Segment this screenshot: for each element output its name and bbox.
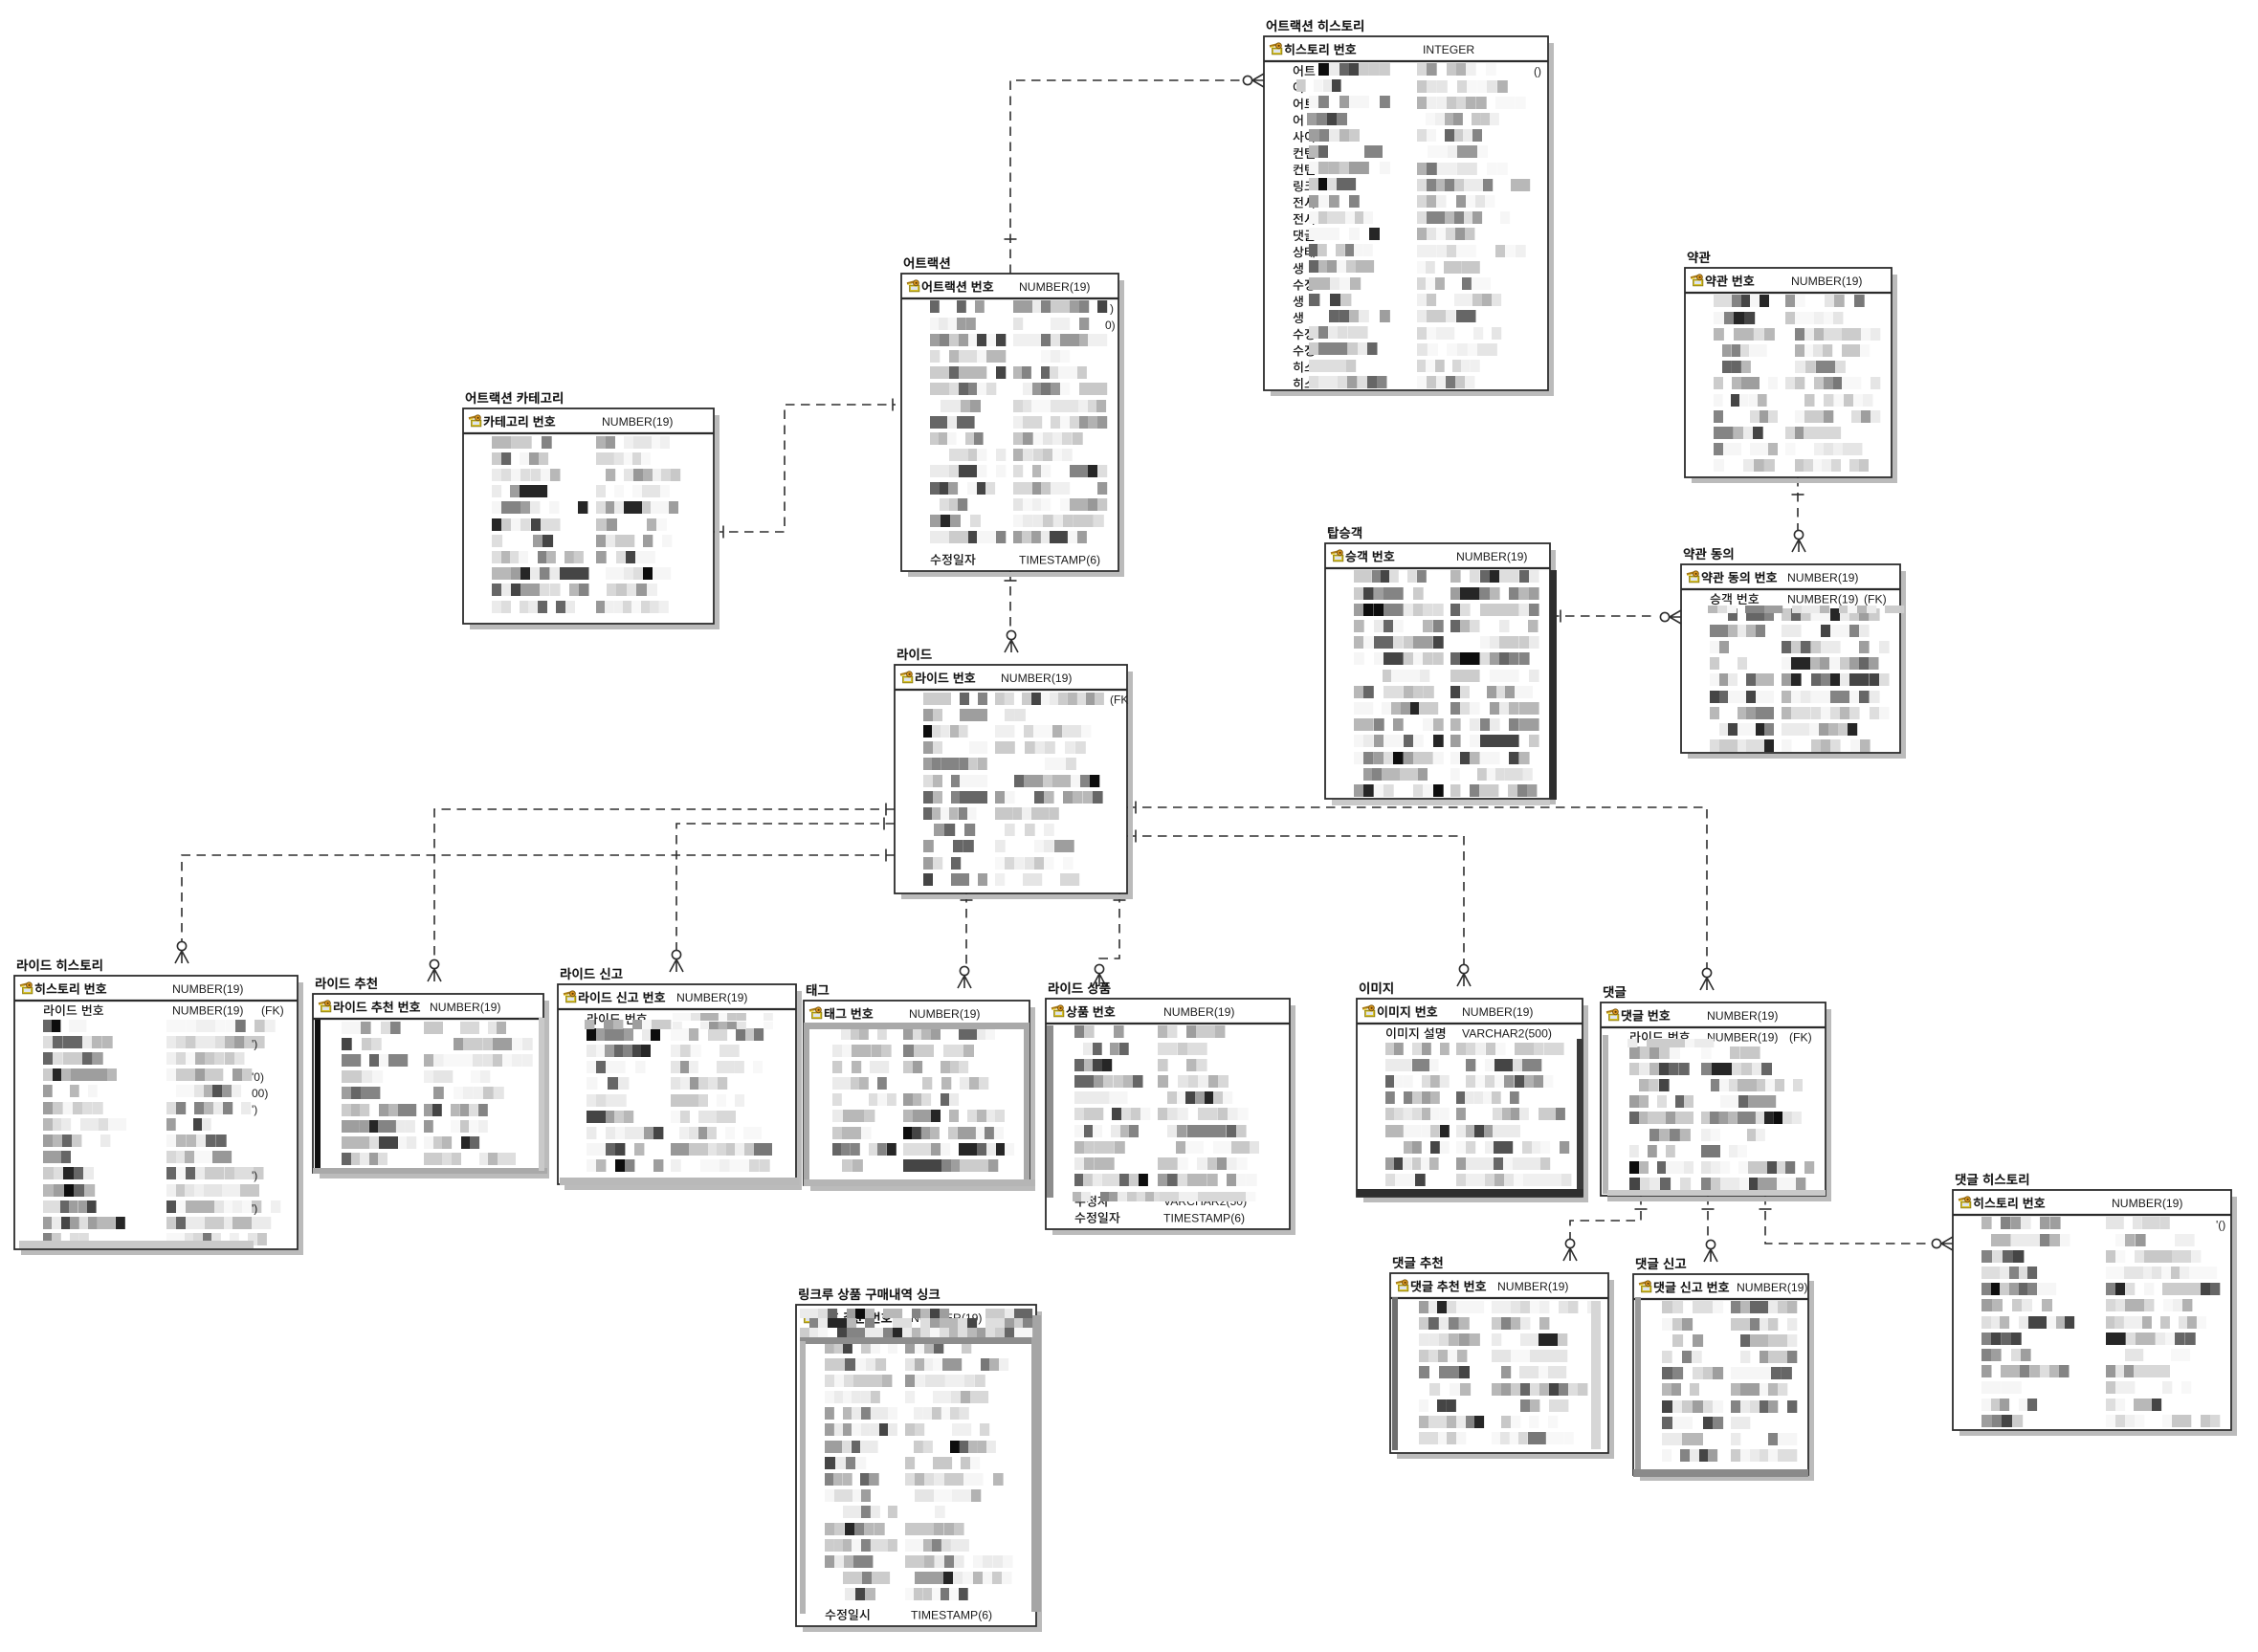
one-tick comment side [1702,1208,1715,1210]
svg-text:VARCHAR2(500): VARCHAR2(500) [1462,1027,1552,1041]
one-tick cat side [722,526,724,539]
svg-text:'): ') [252,1201,257,1215]
redaction over ride_prod row [1073,1192,1082,1201]
redaction over comment first row [1627,1039,1637,1047]
crow-foot com_rec side [1563,1239,1577,1261]
one-tick ride side [1135,802,1137,814]
wire ride to ride_rep [676,824,895,950]
table comment (댓글) [1601,986,1831,1201]
table attr (어트랙션) [901,257,1124,577]
table sync (링크루 상품 구매내역 싱크) [796,1289,1042,1632]
crow-foot attr_hist side [1243,74,1264,87]
wire ride to image [1127,836,1464,964]
one-tick ride side [1114,899,1126,901]
table agree (약관 동의) [1681,548,1906,759]
wire comment to com_rep [1707,1196,1709,1240]
table ride (라이드) [895,649,1133,899]
svg-text:TIMESTAMP(6): TIMESTAMP(6) [1163,1211,1245,1224]
table com_hist (댓글 히스토리) [1953,1174,2237,1436]
table attr_hist (어트랙션 히스토리) [1264,20,1554,396]
svg-text:'): ') [252,1169,257,1182]
svg-text:NUMBER(19): NUMBER(19) [1497,1280,1569,1293]
redaction bar comment left [1603,1035,1608,1194]
one-tick ride side [885,804,887,816]
svg-text:(FK): (FK) [1864,593,1887,606]
crow-foot agree side [1792,530,1805,552]
crow-foot image side [1457,964,1471,986]
svg-text:NUMBER(19): NUMBER(19) [1707,1009,1779,1023]
table ride_prod (라이드 상품) [1046,982,1295,1235]
table tag (태그) [804,984,1035,1191]
one-tick attr side [1005,238,1017,240]
crow-foot com_hist side [1932,1237,1953,1250]
one-tick ride side [1135,830,1137,843]
svg-text:'): ') [252,1037,257,1050]
one-tick attr side [1005,580,1017,582]
one-tick ride side [961,899,973,901]
redaction bars tag [804,1023,1029,1029]
table ride_hist (라이드 히스토리) [14,959,303,1255]
svg-text:NUMBER(19): NUMBER(19) [1001,672,1073,685]
table ride_rec (라이드 추천) [313,978,549,1178]
wire ride to ride_prod [1099,893,1119,964]
svg-text:NUMBER(19): NUMBER(19) [1787,571,1859,584]
one-tick comment side [1635,1208,1648,1210]
svg-text:(FK: (FK [1110,694,1128,707]
wire attr to attr_hist [1010,80,1241,274]
crow-foot tag side [958,966,971,988]
wire comment to com_rec [1570,1196,1641,1239]
redaction over ride_rep first row [585,1020,594,1029]
one-tick passenger side [1560,610,1561,623]
wire ride to tag [965,893,967,966]
table terms (약관) [1685,252,1897,483]
svg-text:NUMBER(19): NUMBER(19) [602,415,674,429]
crow-foot ride_hist side [175,941,188,963]
crow-foot ride_prod side [1093,964,1106,986]
crow-foot agree side [1660,610,1681,624]
svg-text:NUMBER(19): NUMBER(19) [1019,280,1091,294]
wire passenger to agree [1550,615,1657,617]
redaction bars com_rec [1392,1297,1398,1450]
wire comment to com_hist [1765,1196,1929,1244]
wire ride to comment [1127,807,1707,968]
svg-text:'0): '0) [252,1070,264,1084]
redaction bars image [1577,1039,1583,1197]
redaction bars sync [800,1337,1032,1344]
wire cat to attr [714,405,896,532]
one-tick ride side [883,818,885,830]
svg-text:NUMBER(19): NUMBER(19) [172,982,244,996]
crow-foot comment side [1700,968,1714,990]
wire ride to ride_rec [434,809,895,959]
one-tick comment side [1760,1208,1772,1210]
svg-text:NUMBER(19): NUMBER(19) [1456,550,1528,563]
table passenger (탑승객) [1325,527,1556,804]
one-tick attr side [892,399,894,411]
crow-foot ride_rec side [428,959,441,981]
wire ride to ride_hist [182,855,895,941]
table ride_rep (라이드 신고) [558,968,802,1190]
svg-text:NUMBER(19): NUMBER(19) [676,991,748,1004]
redaction over agree first row [1708,606,1717,613]
table com_rec (댓글 추천) [1390,1257,1614,1459]
svg-text:00): 00) [252,1087,268,1100]
redaction bars ride_rec [315,1020,321,1168]
table cat (어트랙션 카테고리) [463,392,719,629]
svg-text:NUMBER(19): NUMBER(19) [1462,1005,1534,1019]
svg-text:(FK): (FK) [1789,1031,1812,1045]
redaction bars ride_prod left [1047,1025,1053,1198]
svg-text:(): () [1534,65,1541,78]
svg-text:NUMBER(19): NUMBER(19) [1791,275,1863,288]
one-tick terms side [1792,494,1804,496]
svg-text:INTEGER: INTEGER [1423,43,1474,56]
redaction bars ride_rep bottom [560,1178,799,1185]
one-tick ride side [885,849,887,862]
table com_rep (댓글 신고) [1633,1258,1814,1481]
svg-text:NUMBER(19): NUMBER(19) [1163,1005,1235,1019]
svg-text:TIMESTAMP(6): TIMESTAMP(6) [911,1608,992,1621]
crow-foot ride side [1005,630,1018,652]
table image (이미지) [1357,982,1588,1202]
svg-text:'): ') [252,1103,257,1116]
svg-text:NUMBER(19): NUMBER(19) [1787,593,1859,606]
redaction over sync header [800,1309,809,1318]
svg-text:NUMBER(19): NUMBER(19) [172,1004,244,1018]
redaction bars com_rep [1635,1297,1641,1471]
crow-foot com_rep side [1704,1240,1717,1262]
svg-text:NUMBER(19): NUMBER(19) [2112,1197,2183,1210]
redaction bar passenger right [1550,570,1557,800]
svg-text:'(): '() [2216,1219,2225,1232]
svg-text:NUMBER(19): NUMBER(19) [430,1001,501,1014]
svg-text:NUMBER(19): NUMBER(19) [909,1007,981,1021]
redaction bars ride_hist bottom [19,1241,254,1248]
svg-text:TIMESTAMP(6): TIMESTAMP(6) [1019,553,1100,566]
svg-text:0): 0) [1105,319,1116,332]
svg-text:NUMBER(19): NUMBER(19) [1707,1031,1779,1045]
crow-foot ride_rep side [670,950,683,972]
svg-text:NUMBER(19): NUMBER(19) [1737,1281,1808,1294]
wire attr to ride [1009,571,1011,629]
svg-text:): ) [1110,302,1114,316]
wire terms to agree [1797,477,1799,530]
svg-text:(FK): (FK) [261,1004,284,1018]
